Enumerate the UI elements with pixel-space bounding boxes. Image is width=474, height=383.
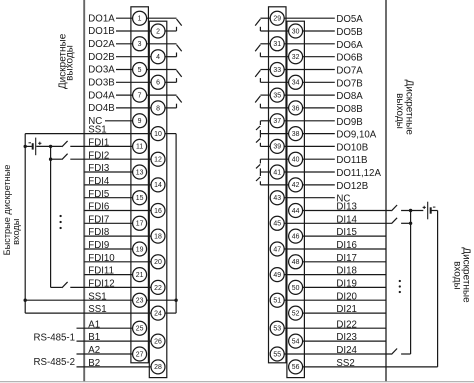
svg-text:DO3B: DO3B: [88, 78, 114, 89]
switch S6 blade (DO6): [255, 45, 260, 52]
terminal 55 (pin 55): [270, 347, 284, 361]
terminal 11 (pin 11): [133, 139, 147, 153]
switch S5 contact post (DO5B): [259, 27, 261, 31]
wire DO1B label to terminal 2: [116, 30, 151, 32]
wire FDI7 to terminal 17: [84, 222, 132, 224]
svg-text:1: 1: [138, 16, 142, 23]
wire DO3B label to terminal 6: [116, 81, 151, 83]
switch post down terminal 38: [259, 134, 261, 138]
terminal 27 (pin 27): [133, 347, 147, 361]
battery G2 negative plate (short): [430, 207, 432, 213]
svg-text:DO9,10A: DO9,10A: [336, 130, 376, 141]
svg-text:47: 47: [273, 246, 281, 253]
wire terminal 35 to DO8A label: [284, 94, 335, 96]
svg-text:34: 34: [292, 80, 300, 87]
svg-text:19: 19: [136, 246, 144, 253]
terminal 40 (pin 40): [289, 152, 303, 166]
terminal 44 (pin 44): [289, 204, 303, 218]
svg-text:DO5A: DO5A: [336, 14, 363, 25]
svg-text:5: 5: [138, 67, 142, 74]
wire FDI11 to terminal 21: [84, 274, 132, 276]
wire NC label to terminal 9: [105, 120, 133, 122]
svg-text:DO4B: DO4B: [88, 103, 114, 114]
svg-text:21: 21: [136, 272, 144, 279]
wire terminal 38 to switch group: [260, 133, 288, 135]
wire FDI feed rail to switch SB2: [51, 158, 62, 160]
ellipsis dots (FDI3..FDI11 switches omitted): [59, 215, 61, 229]
svg-text:38: 38: [292, 131, 300, 138]
svg-text:DO7A: DO7A: [336, 66, 363, 77]
svg-text:33: 33: [273, 67, 281, 74]
DI feed rail (vertical): [410, 211, 412, 355]
wire terminal 33 to DO7A label: [284, 69, 335, 71]
wire terminal 56 (SS2) to battery rail: [303, 366, 438, 368]
switch post terminal 40: [259, 159, 261, 163]
svg-text:9: 9: [138, 118, 142, 125]
svg-text:DO11B: DO11B: [336, 155, 367, 166]
switch S3 blade (DO3): [177, 70, 182, 77]
switch S1 contact post (DO1B): [176, 27, 178, 31]
terminal 32 (pin 32): [289, 50, 303, 64]
battery G1 wire to FDI switches: [36, 145, 62, 147]
terminal 19 (pin 19): [133, 242, 147, 256]
svg-text:42: 42: [292, 182, 300, 189]
svg-text:25: 25: [136, 326, 144, 333]
svg-text:27: 27: [136, 351, 144, 358]
terminal 56 (pin 56): [289, 360, 303, 374]
svg-text:35: 35: [273, 93, 281, 100]
wire terminal 3 to switch S2: [147, 43, 177, 45]
ellipsis dots (DI15..DI23 switches omitted): [399, 280, 401, 293]
wire terminal 38 to DO9,10A label: [303, 133, 335, 135]
wire terminal 6 to switch S3: [165, 81, 177, 83]
terminal 10 (pin 10): [151, 127, 165, 141]
junction dot FDI feed rail / FDI2: [49, 158, 52, 161]
switch blade DO11: [256, 164, 260, 168]
svg-text:DO8A: DO8A: [336, 91, 363, 102]
vertical label: Diskretnye vkhody (right): [451, 247, 471, 303]
terminal block X2 column A (odd terminals 29-55): [269, 7, 287, 363]
terminal 45 (pin 45): [270, 216, 284, 230]
svg-text:DO7B: DO7B: [336, 78, 362, 89]
terminal 38 (pin 38): [289, 127, 303, 141]
wire SS1 rail (left vertical): [24, 134, 26, 314]
svg-text:26: 26: [154, 339, 162, 346]
terminal 7 (pin 7): [133, 88, 147, 102]
wire FDI feed rail to switch SB12: [51, 286, 62, 288]
svg-text:30: 30: [292, 28, 300, 35]
wire FDI5 to terminal 15: [84, 197, 132, 199]
wire terminal 32 to switch S6: [260, 56, 288, 58]
switch S2 contact post (DO2B): [176, 53, 178, 57]
wire terminal 29 to DO5A label: [284, 17, 335, 19]
switch S4 contact post (DO4B): [176, 104, 178, 108]
terminal 42 (pin 42): [289, 178, 303, 192]
wire terminal 40 to switch group: [260, 158, 288, 160]
switch SD14 blade (DI14): [391, 218, 397, 224]
terminal 14 (pin 14): [151, 178, 165, 192]
switch SD24 blade (DI24): [391, 349, 397, 355]
terminal 8 (pin 8): [151, 101, 165, 115]
wire FDI4 to terminal 14: [84, 184, 151, 186]
wire B2 stub to terminal 28: [77, 366, 152, 368]
svg-text:13: 13: [136, 169, 144, 176]
terminal 46 (pin 46): [289, 229, 303, 243]
terminal 39 (pin 39): [270, 139, 284, 153]
terminal 51 (pin 51): [270, 293, 284, 307]
battery G1 positive plate (long): [35, 138, 37, 156]
svg-text:выходы: выходы: [65, 45, 76, 81]
svg-text:DO1A: DO1A: [88, 13, 115, 24]
wire terminal 31 to DO6A label: [284, 43, 335, 45]
wire FDI9 to terminal 19: [84, 248, 132, 250]
junction dot SS1 rail / terminal 23 wire: [24, 299, 27, 302]
svg-text:DO2A: DO2A: [88, 39, 115, 50]
wire DO2A label to terminal 3: [116, 43, 133, 45]
junction dot SS1 bus / terminal 23: [174, 299, 177, 302]
wire terminal 32 to DO6B label: [303, 56, 335, 58]
svg-text:DO1B: DO1B: [88, 26, 114, 37]
svg-text:56: 56: [292, 364, 300, 371]
wire terminal 8 to switch S4: [165, 107, 177, 109]
terminal 36 (pin 36): [289, 101, 303, 115]
wire SS1 bus vertical: [175, 134, 177, 314]
terminal 21 (pin 21): [133, 268, 147, 282]
wire terminal 34 to switch S7: [260, 81, 288, 83]
battery G1 plus sign: [38, 142, 41, 145]
switch blade DO12: [256, 177, 260, 181]
svg-text:7: 7: [138, 93, 142, 100]
wire terminal 1 to switch S1: [147, 17, 177, 19]
svg-text:16: 16: [154, 208, 162, 215]
terminal 15 (pin 15): [133, 191, 147, 205]
wire terminal 39 to DO10B label: [284, 145, 335, 147]
wire switch SD14 to DI feed rail: [401, 222, 411, 224]
wire terminal 46 to DI15: [303, 235, 386, 237]
svg-text:49: 49: [273, 272, 281, 279]
wire DO4B label to terminal 8: [116, 107, 151, 109]
vertical label: Diskretnye vykhody (left): [58, 33, 76, 89]
wire A1 stub to terminal 25: [77, 327, 133, 329]
svg-text:46: 46: [292, 234, 300, 241]
terminal 47 (pin 47): [270, 242, 284, 256]
battery G1 minus sign: [29, 142, 32, 144]
svg-text:29: 29: [273, 16, 281, 23]
svg-text:51: 51: [273, 298, 281, 305]
terminal 24 (pin 24): [151, 306, 165, 320]
terminal 1 (pin 1): [133, 11, 147, 25]
wire FDI1 to terminal 11: [70, 145, 132, 147]
svg-text:22: 22: [154, 285, 162, 292]
terminal block X1 column A (odd terminals 1-27): [131, 7, 149, 363]
svg-text:10: 10: [154, 131, 162, 138]
svg-text:31: 31: [273, 41, 281, 48]
terminal 31 (pin 31): [270, 37, 284, 51]
wire FDI10 to terminal 20: [84, 261, 151, 263]
svg-text:45: 45: [273, 221, 281, 228]
wire terminal 43 to NC label: [284, 197, 335, 199]
junction dot FDI feed rail top: [49, 145, 52, 148]
terminal block X2 column B (even terminals 30-56): [287, 21, 305, 377]
svg-text:53: 53: [273, 326, 281, 333]
terminal 43 (pin 43): [270, 191, 284, 205]
svg-text:28: 28: [154, 364, 162, 371]
svg-text:DO5B: DO5B: [336, 27, 362, 38]
svg-text:54: 54: [292, 339, 300, 346]
svg-text:12: 12: [154, 157, 162, 164]
svg-text:20: 20: [154, 259, 162, 266]
wire DO4A label to terminal 7: [116, 94, 133, 96]
switch S1 blade (DO1): [177, 19, 182, 26]
wire switch SD24 to DI feed rail: [401, 353, 411, 355]
switch SB2 blade (FDI2): [62, 154, 68, 160]
svg-text:RS-485-1: RS-485-1: [34, 332, 75, 343]
wire terminal 55 to DI24 switch: [284, 353, 391, 355]
terminal 50 (pin 50): [289, 280, 303, 294]
switch S6 contact post (DO6B): [259, 53, 261, 57]
device left boundary line: [83, 0, 85, 382]
wire terminal 33 to switch S7: [260, 69, 270, 71]
svg-text:50: 50: [292, 285, 300, 292]
wire terminal 7 to switch S4: [147, 94, 177, 96]
wire terminal 10 to SS1 bus: [165, 133, 176, 135]
switch post up terminal 39: [259, 143, 261, 147]
battery G2 positive plate (long): [427, 202, 429, 220]
switch S4 blade (DO4): [177, 96, 182, 103]
terminal 35 (pin 35): [270, 88, 284, 102]
switch post up terminal 41: [259, 168, 261, 172]
svg-text:41: 41: [273, 169, 281, 176]
device bottom boundary line: [0, 381, 474, 383]
wire FDI6 to terminal 16: [84, 210, 151, 212]
wire terminal 41 to switch group: [260, 171, 270, 173]
wire A2 stub to terminal 27: [77, 353, 133, 355]
wire terminal 40 to DO11B label: [303, 158, 335, 160]
svg-text:входы: входы: [11, 219, 21, 245]
wire terminal 4 to switch S2: [165, 56, 177, 58]
terminal 37 (pin 37): [270, 114, 284, 128]
switch S8 blade (DO8): [255, 96, 260, 103]
junction dot DI feed rail top: [409, 209, 412, 212]
SS2 rail (right vertical): [437, 211, 439, 367]
svg-text:11: 11: [136, 144, 143, 151]
terminal 53 (pin 53): [270, 321, 284, 335]
switch post down terminal 41: [259, 172, 261, 176]
terminal 26 (pin 26): [151, 334, 165, 348]
wire terminal 2 to switch S1: [165, 30, 177, 32]
svg-text:52: 52: [292, 310, 300, 317]
svg-text:DO4A: DO4A: [88, 90, 115, 101]
terminal 3 (pin 3): [133, 37, 147, 51]
wire SS1 rail to terminal 23: [25, 299, 132, 301]
svg-text:14: 14: [154, 182, 162, 189]
svg-text:DO6A: DO6A: [336, 40, 363, 51]
wire terminal 36 to switch S8: [260, 107, 288, 109]
switch post up terminal 42: [259, 181, 261, 185]
switch SB12 blade (FDI12): [62, 282, 68, 288]
svg-text:DO6B: DO6B: [336, 53, 362, 64]
wire terminal 35 to switch S8: [260, 94, 270, 96]
terminal 5 (pin 5): [133, 63, 147, 77]
wire terminal 52 to DI21: [303, 312, 386, 314]
terminal 25 (pin 25): [133, 321, 147, 335]
wire DO1A label to terminal 1: [116, 17, 133, 19]
switch SB1 blade (FDI1): [62, 141, 68, 147]
wire terminal 47 to DI16: [284, 248, 386, 250]
svg-text:17: 17: [136, 221, 144, 228]
terminal 17 (pin 17): [133, 216, 147, 230]
wire terminal 36 to DO8B label: [303, 107, 335, 109]
terminal 13 (pin 13): [133, 165, 147, 179]
device right boundary line: [385, 0, 387, 382]
terminal 48 (pin 48): [289, 255, 303, 269]
wire battery G2 to SS2 rail: [431, 210, 437, 212]
wire terminal 30 to switch S5: [260, 30, 288, 32]
terminal 49 (pin 49): [270, 268, 284, 282]
wire terminal 51 to DI20: [284, 299, 386, 301]
wire terminal 30 to DO5B label: [303, 30, 335, 32]
svg-text:DO12B: DO12B: [336, 181, 368, 192]
svg-text:DO11,12A: DO11,12A: [336, 168, 381, 179]
terminal 30 (pin 30): [289, 24, 303, 38]
wire terminal 41 to DO11,12A label: [284, 171, 335, 173]
wire terminal 37 to switch group: [260, 120, 270, 122]
battery G1 wire from rail: [25, 145, 32, 147]
switch S3 contact post (DO3B): [176, 78, 178, 82]
terminal 18 (pin 18): [151, 229, 165, 243]
wire FDI3 to terminal 13: [84, 171, 132, 173]
terminal 22 (pin 22): [151, 280, 165, 294]
battery G1 negative plate (short): [32, 143, 34, 149]
wire terminal 44 to DI13 switch: [303, 210, 392, 212]
svg-text:DO10B: DO10B: [336, 142, 368, 153]
wire SS1 rail to terminal 10: [25, 133, 151, 135]
wire terminal 42 to switch group: [260, 184, 288, 186]
svg-text:DO3A: DO3A: [88, 65, 115, 76]
wire FDI2 to terminal 12: [70, 158, 151, 160]
svg-text:39: 39: [273, 144, 281, 151]
svg-text:DO9B: DO9B: [336, 117, 362, 128]
switch S7 blade (DO7): [255, 70, 260, 77]
svg-text:23: 23: [136, 298, 144, 305]
wire switch SD13 to battery G2: [401, 210, 423, 212]
terminal 6 (pin 6): [151, 75, 165, 89]
svg-text:DO8B: DO8B: [336, 104, 362, 115]
junction dot DI feed rail / DI14: [409, 222, 412, 225]
svg-text:выходы: выходы: [394, 93, 405, 129]
svg-text:43: 43: [273, 195, 281, 202]
terminal 12 (pin 12): [151, 152, 165, 166]
svg-text:48: 48: [292, 259, 300, 266]
terminal 34 (pin 34): [289, 75, 303, 89]
svg-text:40: 40: [292, 157, 300, 164]
wire terminal 50 to DI19: [303, 286, 386, 288]
wire terminal 23 to SS1 bus: [147, 299, 177, 301]
battery G2 plus sign: [423, 206, 426, 209]
wire terminal 48 to DI17: [303, 261, 386, 263]
wire FDI12 to terminal 22: [70, 286, 151, 288]
svg-text:44: 44: [292, 208, 300, 215]
battery G2 minus sign: [433, 206, 436, 208]
svg-text:2: 2: [156, 28, 160, 35]
terminal 16 (pin 16): [151, 204, 165, 218]
vertical label: Diskretnye vykhody (right): [394, 80, 415, 136]
terminal 52 (pin 52): [289, 306, 303, 320]
switch SD13 blade (DI13): [391, 205, 397, 211]
wire terminal 53 to DI22: [284, 327, 386, 329]
terminal block X1 column B (even terminals 2-28): [149, 21, 167, 377]
wire FDI8 to terminal 18: [84, 235, 151, 237]
svg-text:RS-485-2: RS-485-2: [34, 357, 75, 368]
switch post up terminal 38: [259, 130, 261, 134]
wire terminal 54 to DI23: [303, 340, 386, 342]
terminal 29 (pin 29): [270, 11, 284, 25]
wire terminal 34 to DO7B label: [303, 81, 335, 83]
svg-text:55: 55: [273, 351, 281, 358]
svg-text:6: 6: [156, 80, 160, 87]
wire DO3A label to terminal 5: [116, 69, 133, 71]
wire terminal 49 to DI18: [284, 274, 386, 276]
switch post terminal 37: [259, 121, 261, 125]
svg-text:37: 37: [273, 118, 281, 125]
svg-text:32: 32: [292, 54, 300, 61]
svg-text:36: 36: [292, 105, 300, 112]
wire terminal 37 to DO9B label: [284, 120, 335, 122]
FDI feed rail (vertical): [50, 146, 52, 287]
wire terminal 45 to DI14 switch: [284, 222, 391, 224]
svg-text:24: 24: [154, 310, 162, 317]
wire terminal 29 to switch S5: [260, 17, 270, 19]
terminal 2 (pin 2): [151, 24, 165, 38]
switch blade DO10: [256, 139, 260, 143]
wire terminal 42 to DO12B label: [303, 184, 335, 186]
terminal 4 (pin 4): [151, 50, 165, 64]
terminal 28 (pin 28): [151, 360, 165, 374]
svg-text:4: 4: [156, 54, 160, 61]
switch blade DO9: [256, 126, 260, 130]
terminal 9 (pin 9): [133, 114, 147, 128]
svg-text:8: 8: [156, 105, 160, 112]
switch S2 blade (DO2): [177, 45, 182, 52]
terminal 20 (pin 20): [151, 255, 165, 269]
wire DO2B label to terminal 4: [116, 56, 151, 58]
svg-text:3: 3: [138, 41, 142, 48]
svg-text:15: 15: [136, 195, 144, 202]
wire B1 stub to terminal 26: [77, 340, 152, 342]
switch S8 contact post (DO8B): [259, 104, 261, 108]
wire terminal 39 to switch group: [260, 145, 270, 147]
vertical label: Bystrye diskretnye vkhody (left): [2, 165, 21, 256]
svg-text:18: 18: [154, 234, 162, 241]
terminal 33 (pin 33): [270, 63, 284, 77]
svg-text:DO2B: DO2B: [88, 52, 114, 63]
switch S7 contact post (DO7B): [259, 78, 261, 82]
wire terminal 24 to SS1 bus: [165, 312, 176, 314]
terminal 54 (pin 54): [289, 334, 303, 348]
wire terminal 5 to switch S3: [147, 69, 177, 71]
junction dot SS1 rail / battery G1: [24, 145, 27, 148]
terminal 41 (pin 41): [270, 165, 284, 179]
terminal 23 (pin 23): [133, 293, 147, 307]
svg-text:входы: входы: [451, 261, 462, 290]
wire SS1 rail to terminal 24: [25, 312, 151, 314]
switch S5 blade (DO5): [255, 19, 260, 26]
wire terminal 31 to switch S6: [260, 43, 270, 45]
